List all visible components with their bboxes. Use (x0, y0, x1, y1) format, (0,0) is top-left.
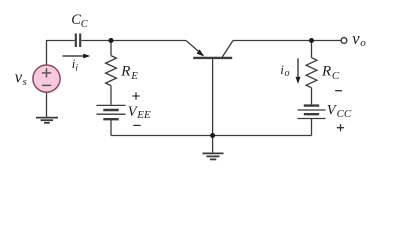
svg-text:C: C (71, 12, 81, 28)
svg-text:v: v (352, 29, 360, 48)
svg-text:C: C (332, 70, 340, 82)
svg-text:E: E (130, 70, 138, 82)
svg-text:CC: CC (337, 108, 352, 120)
svg-text:R: R (120, 63, 130, 79)
svg-text:s: s (23, 76, 27, 88)
svg-text:i: i (75, 63, 78, 73)
svg-text:C: C (81, 19, 89, 30)
svg-text:EE: EE (136, 109, 151, 121)
svg-text:o: o (360, 37, 366, 49)
svg-text:R: R (321, 63, 331, 79)
svg-text:o: o (285, 68, 290, 79)
